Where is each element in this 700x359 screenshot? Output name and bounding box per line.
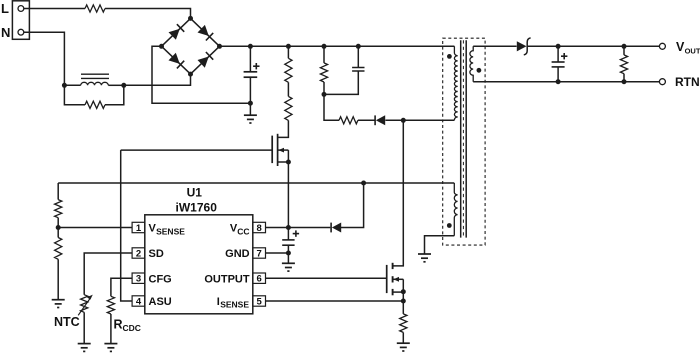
svg-text:SD: SD [149, 248, 164, 260]
wire to choke [64, 84, 80, 86]
svg-text:CFG: CFG [149, 273, 172, 285]
AC input terminal block J1 [12, 1, 29, 40]
wire pin 6 to Q2 gate [266, 277, 387, 279]
svg-text:NTC: NTC [54, 315, 80, 329]
svg-text:iW1760: iW1760 [176, 201, 218, 215]
bridge edge bottom-left [162, 46, 191, 74]
inductor L1 core line 2 [81, 77, 109, 79]
junction GND node [286, 251, 291, 256]
wire choke bypass left [64, 85, 85, 105]
junction drain node [401, 118, 406, 123]
pin 1 box [132, 222, 145, 232]
op-amp U1 iW1760 body [145, 215, 253, 314]
wire NTC to ground [83, 312, 85, 343]
ground current sense [397, 342, 410, 344]
wire ISENSE to R9 [402, 301, 404, 314]
Q2 body lead with arrow [393, 278, 404, 280]
wire rail to R4 [323, 46, 325, 63]
svg-text:GND: GND [225, 248, 250, 260]
wire DC+ rail [220, 45, 455, 47]
transformer T1 shield box [443, 38, 485, 245]
wire R5 to D1 [358, 119, 375, 121]
svg-text:R: R [114, 317, 123, 331]
junction bridge left [159, 44, 164, 49]
bridge edge top-left [162, 18, 191, 46]
wire R4 to snubber node [323, 82, 325, 94]
junction rail at R4 [322, 44, 327, 49]
wire VCC node to pin 8 [266, 227, 289, 229]
capacitor C1 bulk electrolytic [244, 71, 258, 73]
wire C3 bottom [557, 67, 559, 82]
svg-text:3: 3 [136, 274, 141, 285]
bridge diode BR3 (left to bottom) [169, 53, 180, 64]
wire RCDC to ground [110, 314, 112, 344]
terminal RTN circle [659, 79, 665, 85]
transistor Q1 channel bar [277, 134, 279, 166]
terminal VOUT circle [659, 43, 665, 49]
transformer T1 secondary winding [470, 46, 473, 81]
svg-text:L: L [1, 1, 9, 16]
terminal N pin circle [18, 29, 24, 35]
svg-text:1: 1 [136, 223, 142, 234]
wire node to R8 [57, 228, 59, 238]
wire C1 to ground rail [249, 77, 251, 103]
wire C4 to GND node [287, 245, 289, 253]
T1 aux polarity dot [447, 223, 452, 228]
pin 4 box [132, 296, 145, 306]
resistor R7 sense upper [55, 200, 62, 218]
wire choke bypass right [105, 85, 124, 105]
svg-text:8: 8 [257, 223, 262, 234]
wire source to ISENSE [402, 292, 404, 301]
svg-text:SENSE: SENSE [156, 226, 185, 236]
wire aux bottom to ground [425, 236, 455, 254]
ground NTC [78, 343, 91, 345]
C1 plus sign [253, 65, 259, 67]
inductor L1 core line 1 [81, 73, 109, 75]
junction Q2 source [401, 289, 406, 294]
bridge edge bottom-right [191, 46, 220, 74]
resistor R2 startup upper [285, 58, 292, 82]
T1 secondary polarity dot [477, 68, 482, 73]
wire GND node to pin 7 [266, 252, 289, 254]
Q1 gate lead [121, 149, 273, 151]
wire D1 to drain node [385, 119, 403, 121]
junction aux VCC diode tap [361, 181, 366, 186]
junction choke right [121, 83, 126, 88]
wire C2 to snubber node [324, 71, 358, 94]
capacitor C4 VCC electrolytic [282, 239, 294, 241]
resistor R8 sense lower [55, 238, 62, 260]
wire C3 top [557, 46, 559, 62]
svg-text:4: 4 [136, 296, 142, 307]
junction rail at C1 [248, 44, 253, 49]
pin 7 box [253, 248, 266, 258]
wire aux into divider R7 [57, 183, 59, 200]
wire R9 to ground [402, 332, 404, 343]
ground RCDC [104, 343, 117, 345]
transformer T1 primary winding [454, 46, 457, 120]
resistor R1 across choke [85, 101, 105, 108]
wire bridge left to ground rail [152, 46, 250, 103]
wire R8 to ground [57, 259, 59, 299]
svg-text:7: 7 [257, 248, 262, 259]
wire L to fuse [24, 8, 85, 10]
thermistor NTC [81, 295, 88, 313]
wire snubber node down [324, 94, 339, 120]
wire rail to C1 [249, 46, 251, 72]
wire choke to junction [108, 84, 124, 86]
svg-text:SENSE: SENSE [220, 300, 249, 310]
bridge diode BR2 (top to right) [198, 25, 209, 36]
svg-text:OUT: OUT [685, 46, 700, 55]
junction ISENSE node [401, 299, 406, 304]
wire rail to C2 [357, 46, 359, 67]
diode D1 snubber [376, 115, 385, 125]
diode D3 VCC rectifier [332, 223, 341, 233]
wire tap down to D3 [340, 183, 363, 228]
T1 core shield dashed line [462, 40, 464, 237]
junction Q1 source [286, 160, 291, 165]
svg-text:CC: CC [237, 226, 249, 236]
pin 5 box [253, 296, 266, 306]
resistor RCDC [107, 296, 114, 314]
wire drain node to primary [403, 119, 454, 121]
junction bridge top [188, 16, 193, 21]
T1 core line 2 [465, 40, 467, 237]
svg-text:2: 2 [136, 248, 141, 259]
Q2 channel segment 1 [392, 263, 394, 269]
pin 8 box [253, 222, 266, 232]
resistor R5 snubber series [339, 117, 358, 124]
wire D2 to VOUT terminal [527, 45, 659, 47]
bridge diode BR1 (left to top) [169, 29, 180, 40]
resistor R3 startup lower [285, 96, 292, 120]
wire R7 to node [57, 218, 59, 228]
junction R6 top [622, 44, 627, 49]
wire VSENSE node to pin 1 [58, 227, 132, 229]
junction VCC node [286, 225, 291, 230]
wire pin 5 to ISENSE node [266, 300, 404, 302]
ground VCC [287, 253, 289, 263]
wire secondary to D2 [473, 45, 516, 47]
transistor Q2 gate bar [386, 265, 388, 293]
wire VCC node to C4 [287, 228, 289, 241]
resistor R9 current sense [400, 314, 407, 333]
wire fuse to bridge top [105, 9, 191, 19]
junction rail at C2 [356, 44, 361, 49]
T1 primary polarity dot [447, 54, 452, 59]
diode D2 output schottky [517, 41, 527, 51]
wire aux to divider [58, 182, 454, 184]
Q2 drain lead [393, 120, 404, 266]
C3 plus sign [561, 55, 567, 57]
NTC arrow [78, 298, 90, 316]
inductor L1 winding [81, 82, 109, 85]
wire pin 3 to RCDC [111, 278, 132, 296]
junction R6 bottom [622, 79, 627, 84]
Q2 channel segment 2 [392, 276, 394, 282]
resistor R6 load [620, 55, 627, 74]
wire rail to R2 [287, 46, 289, 58]
capacitor C3 output electrolytic [552, 61, 565, 63]
transformer T1 auxiliary winding [454, 183, 457, 236]
junction C3 top [556, 44, 561, 49]
wire ASU from Q1 gate to pin 4 [121, 150, 132, 301]
junction snubber node [322, 92, 327, 97]
svg-text:OUTPUT: OUTPUT [204, 273, 250, 285]
wire R6 bottom [623, 74, 625, 82]
bridge edge top-right [191, 18, 220, 46]
wire pin 2 to NTC [84, 253, 132, 295]
Q2 channel segment 3 [392, 289, 394, 295]
wire RTN rail [473, 81, 659, 83]
junction bulk cap bottom [248, 101, 253, 106]
junction C3 bottom [556, 79, 561, 84]
junction choke left [62, 83, 67, 88]
Q2 source stub [393, 291, 404, 293]
ground primary (bulk) [249, 103, 251, 115]
C4 plus sign [293, 233, 299, 235]
wire R3 to Q1 drain [278, 120, 289, 137]
svg-text:U1: U1 [187, 186, 203, 200]
pin 6 box [253, 273, 266, 283]
transistor Q1 gate bar [271, 136, 273, 164]
wire D3 to VCC node [288, 227, 330, 229]
svg-text:N: N [1, 25, 10, 40]
T1 core line 1 [460, 40, 462, 237]
svg-text:6: 6 [257, 274, 262, 285]
svg-text:RTN: RTN [675, 75, 700, 89]
capacitor C2 snubber [352, 67, 364, 69]
ground aux winding [418, 253, 431, 255]
wire Q1 source to VCC node [287, 162, 289, 228]
resistor R4 snubber [320, 63, 327, 82]
Q1 body lead with arrow [278, 149, 289, 151]
wire choke to bridge bottom [124, 74, 191, 85]
junction bridge bottom [188, 72, 193, 77]
svg-text:5: 5 [257, 296, 263, 307]
wire R2 to R3 [287, 82, 289, 96]
bridge diode BR4 (bottom to right) [198, 57, 209, 68]
pin 2 box [132, 248, 145, 258]
junction bridge right [217, 44, 222, 49]
ground sense divider [52, 299, 65, 301]
wire N down to choke [24, 32, 65, 85]
wire R6 top [623, 46, 625, 55]
Q1 source stub [278, 161, 289, 163]
junction rail at R2 [286, 44, 291, 49]
pin 3 box [132, 273, 145, 283]
fuse resistor F1 [85, 5, 105, 12]
svg-text:ASU: ASU [149, 296, 172, 308]
svg-text:CDC: CDC [123, 323, 141, 333]
terminal L pin circle [18, 6, 24, 12]
junction VSENSE node [56, 225, 61, 230]
